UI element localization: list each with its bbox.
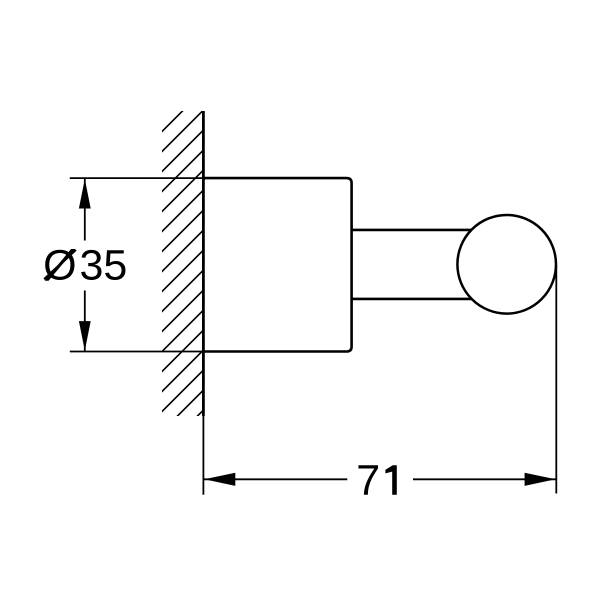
arrow right (71) bbox=[525, 473, 556, 486]
arrow up (d35) bbox=[79, 179, 91, 209]
arrow left (71) bbox=[204, 473, 235, 486]
hook body bbox=[203, 178, 351, 351]
svg-text:35: 35 bbox=[80, 242, 128, 290]
dimension line d35 (vertical, broken for label) bbox=[84, 178, 86, 240]
hook ball bbox=[457, 215, 556, 314]
dimension line 71 (horizontal, broken for label) bbox=[204, 478, 347, 480]
extension line left (71) bbox=[202, 416, 204, 495]
extension line bottom (d35) bbox=[70, 351, 204, 353]
wall hatching bbox=[161, 89, 206, 454]
extension line right (71) bbox=[555, 266, 557, 494]
diameter slash extension bbox=[44, 250, 76, 279]
wall line bbox=[202, 111, 205, 416]
label 71 digit 1 (drawn, Arial-style without foot) bbox=[385, 465, 396, 495]
extension line top (d35) bbox=[70, 177, 204, 179]
hook stem bbox=[352, 229, 476, 232]
arrow down (d35) bbox=[79, 321, 91, 351]
svg-text:7: 7 bbox=[356, 457, 380, 505]
